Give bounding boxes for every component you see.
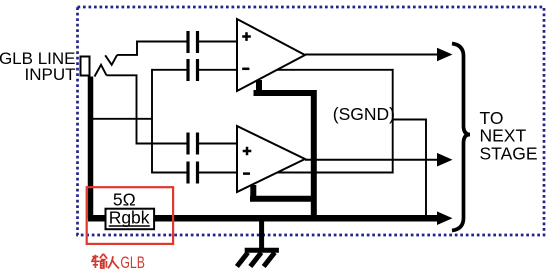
wire: tip to C1 <box>117 42 187 55</box>
wire: shield tap to shield node <box>91 118 153 120</box>
red highlight box around Rgbk <box>87 187 173 244</box>
label TO NEXT STAGE <box>480 108 538 164</box>
wire: U1 output <box>305 54 438 56</box>
capacitor C3 <box>188 133 198 155</box>
svg-text:Rgbk: Rgbk <box>109 208 150 228</box>
thick shield wire from jack sleeve <box>88 77 94 219</box>
op-amp U1 <box>237 19 305 91</box>
svg-text:INPUT: INPUT <box>25 65 76 84</box>
wire: shield node to C4 <box>152 172 187 174</box>
arrow: U1 output to next stage <box>437 48 453 62</box>
wire: jack ring contact zigzag <box>95 65 107 77</box>
wire: C2 to U1 inverting input / feedback node <box>199 69 393 71</box>
label GLB LINE INPUT <box>0 49 76 84</box>
svg-text:5Ω: 5Ω <box>113 190 136 210</box>
wire: C3 to U2 non-inverting input <box>199 143 237 145</box>
svg-text:(SGND): (SGND) <box>333 104 395 124</box>
wire: C1 to U1 non-inverting input <box>199 41 237 43</box>
dotted enclosure border <box>78 7 545 235</box>
capacitor C4 <box>188 162 198 184</box>
red label: hanzi SHU (input) <box>91 254 107 268</box>
capacitor C2 <box>188 59 198 81</box>
wire: ring to C3 <box>107 75 187 143</box>
red label: hanzi RU (GLB) <box>108 256 119 268</box>
capacitor C1 <box>188 31 198 53</box>
op-amp U2 <box>237 126 305 192</box>
wire: U2 output <box>305 159 438 161</box>
thick SGND bus <box>250 80 314 218</box>
wire: jack tip contact zigzag <box>105 55 117 65</box>
svg-text:GLB: GLB <box>120 253 144 272</box>
wire: shield node to C2 <box>152 69 187 71</box>
wire: feedback loop vertical <box>392 69 394 174</box>
thick ground rail <box>88 215 438 222</box>
curly brace to next stage <box>452 44 470 231</box>
connector J1 jack sleeve <box>81 57 90 76</box>
wire: C4 to U2 inverting input / feedback node <box>199 172 393 174</box>
arrow: ground rail to next stage <box>437 211 453 225</box>
wire: SGND tap <box>393 120 426 219</box>
ground symbol <box>237 219 279 267</box>
svg-text:STAGE: STAGE <box>480 144 538 164</box>
arrow: U2 output to next stage <box>437 153 453 167</box>
resistor Rgbk box <box>106 208 155 230</box>
wire: vertical shield node <box>151 69 153 174</box>
